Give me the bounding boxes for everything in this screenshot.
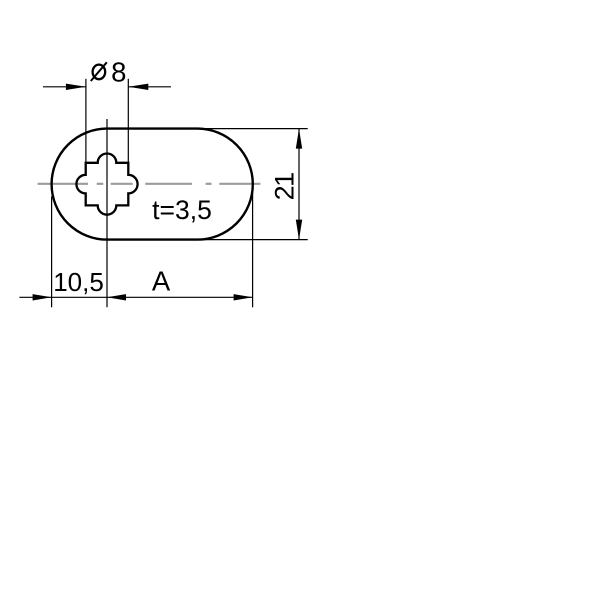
extension line top of 21 dimension <box>198 128 308 130</box>
svg-text:t=3,5: t=3,5 <box>152 195 212 225</box>
svg-text:10,5: 10,5 <box>53 267 104 297</box>
Ø8 left arrowhead <box>66 84 86 90</box>
21 dimension line <box>298 129 300 240</box>
A left arrowhead at hole center <box>107 294 126 300</box>
extension line right of Ø8 dimension <box>127 79 129 163</box>
Ø8 dimension line left tail <box>43 86 86 88</box>
Ø8 right arrowhead <box>128 84 148 90</box>
extension line through hole center <box>106 119 108 307</box>
horizontal centerline (dash-dot, gray) <box>38 183 261 185</box>
svg-text:21: 21 <box>270 173 300 201</box>
extension line left of Ø8 dimension <box>85 79 87 163</box>
21 bottom arrowhead <box>296 220 302 240</box>
svg-text:8: 8 <box>111 56 126 87</box>
A right arrowhead <box>234 294 253 300</box>
svg-text:A: A <box>152 266 171 297</box>
21 top arrowhead <box>296 129 302 149</box>
Ø8 dimension line right tail <box>128 86 171 88</box>
extension line below plate right edge <box>252 191 254 308</box>
plate outline (stadium shape) <box>52 129 253 240</box>
diameter symbol of Ø8 label <box>93 65 106 80</box>
extension line below plate left edge <box>51 196 53 307</box>
quatrefoil cam hole Ø8 <box>76 154 137 215</box>
extension line bottom of 21 dimension <box>198 239 308 241</box>
10,5 left arrowhead <box>33 294 52 300</box>
bottom dimension line <box>19 296 252 298</box>
